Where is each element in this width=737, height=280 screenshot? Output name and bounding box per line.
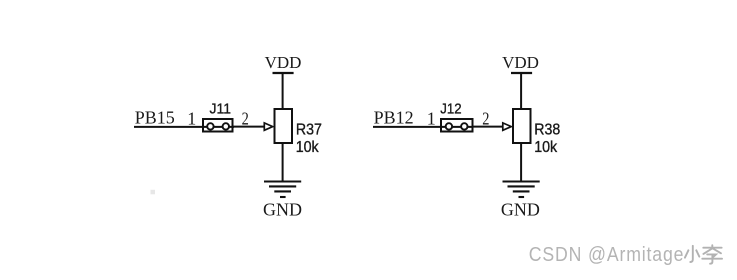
- wire PB15 to J11 pin1: [134, 126, 234, 128]
- pin 2 label of J12: [482, 109, 489, 129]
- svg-text:VDD: VDD: [265, 53, 302, 72]
- jumper J11 body: [203, 119, 233, 132]
- power VDD bar (left): [273, 72, 294, 74]
- svg-text:R38: R38: [534, 122, 560, 139]
- svg-text:J11: J11: [210, 102, 232, 118]
- svg-text:10k: 10k: [296, 139, 319, 156]
- svg-text:10k: 10k: [534, 139, 557, 156]
- 小: [690, 246, 693, 262]
- wire PB12 to J12 pin1: [373, 126, 473, 128]
- ground (left): [264, 182, 301, 198]
- svg-text:PB15: PB15: [135, 108, 175, 128]
- wire VDD to R37: [282, 73, 284, 109]
- designator label J12: [440, 102, 461, 118]
- jumper J12 body: [441, 119, 473, 132]
- svg-text:1: 1: [187, 108, 196, 128]
- power VDD bar (right): [511, 72, 532, 74]
- faint smudge artifact: [151, 190, 156, 195]
- value label 10k (R38): [534, 139, 557, 156]
- wire J11 pin2 to R37 wiper: [234, 126, 265, 128]
- svg-text:GND: GND: [501, 199, 540, 219]
- svg-text:PB12: PB12: [374, 108, 414, 128]
- net label VDD (left): [265, 53, 302, 72]
- net label PB12: [374, 108, 414, 128]
- net label PB15: [135, 108, 175, 128]
- wiper arrow of R38: [503, 123, 511, 130]
- svg-text:R37: R37: [296, 122, 322, 139]
- pin 1 label of J11: [187, 108, 196, 128]
- pin 2 label of J11: [242, 109, 249, 129]
- designator label J11: [210, 102, 232, 118]
- pin 1 label of J12: [427, 108, 436, 128]
- wire VDD to R38: [520, 73, 522, 109]
- svg-text:VDD: VDD: [502, 53, 539, 72]
- 李: [703, 247, 721, 249]
- value label 10k (R37): [296, 139, 319, 156]
- designator label R37: [296, 122, 322, 139]
- wiper arrow of R37: [264, 123, 272, 130]
- net label VDD (right): [502, 53, 539, 72]
- wire J12 pin2 to R38 wiper: [472, 126, 503, 128]
- ground (right): [503, 182, 540, 198]
- watermark: [529, 244, 722, 266]
- net label GND (right): [501, 199, 540, 219]
- designator label R38: [534, 122, 560, 139]
- svg-text:J12: J12: [440, 102, 461, 118]
- svg-text:CSDN @Armitage: CSDN @Armitage: [529, 244, 685, 266]
- net label GND (left): [263, 199, 302, 219]
- wire R37 to ground: [282, 143, 284, 182]
- resistor R38 body: [513, 109, 531, 143]
- resistor R37 body: [275, 109, 293, 143]
- svg-text:GND: GND: [263, 199, 302, 219]
- svg-text:1: 1: [427, 108, 436, 128]
- wire R38 to ground: [520, 143, 522, 182]
